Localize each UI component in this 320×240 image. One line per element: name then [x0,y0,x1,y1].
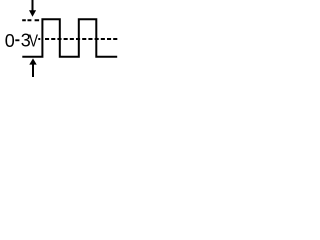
svg-text:0: 0 [5,31,15,51]
mid dashed line [38,38,40,40]
label 0-3V [5,31,39,52]
square wave [22,19,117,57]
down arrow [29,0,36,17]
up arrow [29,58,36,77]
high-level dashed line [22,19,39,21]
svg-text:V: V [29,32,38,51]
